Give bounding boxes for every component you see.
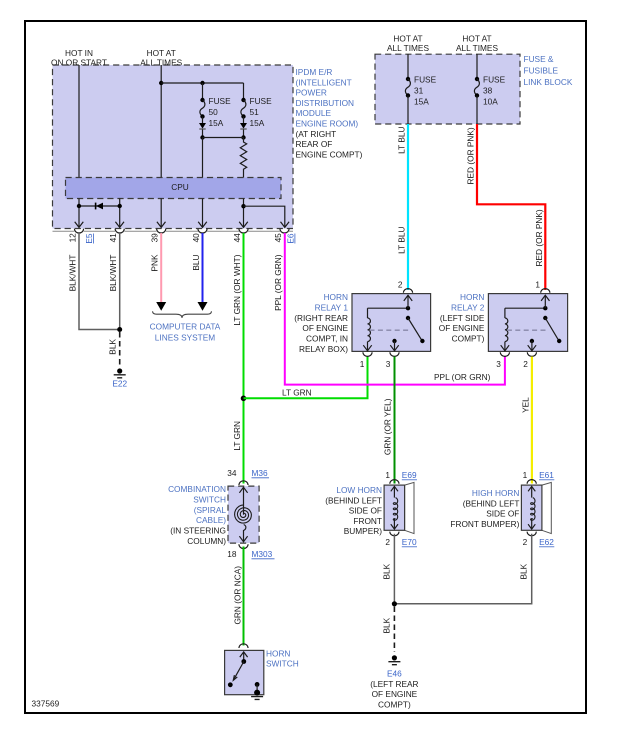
svg-text:COMPT, IN: COMPT, IN: [306, 334, 348, 344]
label LT GRN vertical: [232, 421, 242, 451]
IPDM E/R module U1 (box): [53, 65, 294, 229]
svg-text:41: 41: [108, 233, 118, 243]
label BLK (E22): [108, 339, 118, 355]
svg-text:FUSE &: FUSE &: [524, 54, 554, 64]
high horn label text: [450, 488, 519, 529]
svg-text:COMPUTER DATA: COMPUTER DATA: [150, 322, 221, 332]
wire CPU out pin 40: [198, 199, 207, 228]
svg-text:LT BLU: LT BLU: [397, 227, 407, 254]
svg-text:HIGH HORN: HIGH HORN: [472, 488, 519, 498]
svg-text:E5: E5: [84, 233, 94, 244]
svg-text:45: 45: [273, 233, 283, 243]
brace computer data lines: [153, 311, 212, 318]
label BLK low horn: [382, 563, 392, 579]
svg-text:RED (OR PNK): RED (OR PNK): [534, 209, 544, 266]
connector arcs IPDM pins: [74, 229, 289, 233]
relay 1 pin 2 internal wire: [404, 295, 412, 308]
svg-text:E6: E6: [286, 233, 296, 244]
wire GRN (OR NCA) to horn switch: [243, 547, 245, 646]
svg-text:10A: 10A: [483, 97, 498, 107]
svg-text:LT GRN: LT GRN: [282, 388, 312, 398]
svg-text:PNK: PNK: [150, 254, 160, 272]
svg-text:(AT RIGHT: (AT RIGHT: [296, 129, 337, 139]
high horn bottom connector arc: [527, 532, 536, 536]
svg-text:SWITCH: SWITCH: [266, 659, 299, 669]
svg-text:1: 1: [535, 280, 540, 290]
relay 1 pin 3 internal wire: [390, 339, 398, 351]
svg-text:15A: 15A: [250, 118, 265, 128]
svg-text:OF ENGINE: OF ENGINE: [372, 689, 418, 699]
wire BLK/WHT from pin 41: [119, 233, 121, 330]
connector E61 label: [539, 470, 554, 480]
wire hot-at feed to CPU: [160, 65, 162, 178]
diode D1: [77, 203, 122, 210]
fuse 51 15A: [240, 83, 247, 138]
svg-text:HOT AT: HOT AT: [393, 34, 422, 44]
svg-text:FUSIBLE: FUSIBLE: [524, 66, 559, 76]
label HOT AT ALL TIMES (IPDM): [140, 48, 182, 68]
svg-text:HORN: HORN: [324, 292, 348, 302]
svg-text:BLK/WHT: BLK/WHT: [68, 255, 78, 292]
svg-text:COLUMN): COLUMN): [187, 536, 226, 546]
svg-text:3: 3: [496, 359, 501, 369]
svg-text:LT GRN (OR WHT): LT GRN (OR WHT): [232, 254, 242, 325]
svg-text:BLU: BLU: [191, 254, 201, 270]
low horn top connector arc: [390, 480, 399, 484]
pin 41 label: [108, 233, 118, 243]
svg-text:FUSE: FUSE: [483, 75, 506, 85]
svg-text:2: 2: [398, 280, 403, 290]
horn switch top connector arc: [239, 644, 248, 648]
wire BLK dashed to E48: [393, 607, 395, 653]
wire RED (OR PNK) fuse 38 to relay 2 pin 1: [477, 124, 545, 290]
svg-text:IPDM E/R: IPDM E/R: [296, 67, 333, 77]
low horn LS1: [384, 482, 414, 533]
relay 1 pin 2 label: [398, 280, 403, 290]
svg-text:2: 2: [523, 537, 528, 547]
combination switch spiral cable symbol: [235, 487, 252, 541]
connector M303 label: [252, 549, 275, 559]
node LT GRN junction: [241, 396, 247, 402]
wire BLK/WHT from pin 12: [79, 233, 118, 330]
relay 2 pin 1 internal wire: [541, 295, 549, 308]
svg-text:E61: E61: [539, 470, 554, 480]
svg-text:RELAY BOX): RELAY BOX): [299, 344, 348, 354]
svg-text:(SPIRAL: (SPIRAL: [194, 505, 227, 515]
node ground junction: [117, 327, 122, 332]
svg-text:(INTELLIGENT: (INTELLIGENT: [296, 77, 352, 87]
relay 1 pin 1 label: [360, 359, 365, 369]
svg-text:ENGINE ROOM): ENGINE ROOM): [296, 119, 359, 129]
relay 2 switch: [543, 316, 561, 343]
svg-text:OF ENGINE: OF ENGINE: [302, 323, 348, 333]
svg-text:50: 50: [209, 107, 219, 117]
wire BLK dashed to E22: [119, 332, 121, 366]
svg-text:YEL: YEL: [520, 397, 530, 413]
svg-text:DISTRIBUTION: DISTRIBUTION: [296, 98, 355, 108]
svg-text:ALL TIMES: ALL TIMES: [456, 43, 498, 53]
svg-text:LINES SYSTEM: LINES SYSTEM: [155, 333, 215, 343]
pin 44 label: [232, 233, 242, 243]
wire CPU out pin 39: [157, 199, 166, 228]
horn switch label: [266, 648, 299, 668]
svg-text:BLK: BLK: [108, 339, 118, 355]
label FUSE 31 15A: [414, 75, 437, 107]
ground E22: [112, 368, 127, 388]
svg-text:337569: 337569: [32, 699, 60, 709]
wire BLU from pin 40: [198, 233, 208, 311]
svg-text:RED (OR PNK): RED (OR PNK): [466, 127, 476, 184]
wire LT GRN to relay 1 pin 1: [244, 357, 368, 399]
svg-text:CPU: CPU: [171, 182, 189, 192]
label YEL: [520, 397, 530, 413]
high horn top connector arc: [527, 480, 536, 484]
svg-text:(BEHIND LEFT: (BEHIND LEFT: [463, 498, 520, 508]
svg-text:15A: 15A: [209, 118, 224, 128]
wire pin 44 to pin 45 branch: [244, 206, 290, 227]
relay 1 coil: [368, 308, 371, 341]
svg-text:HORN: HORN: [460, 292, 484, 302]
diagram number: [32, 699, 60, 709]
svg-text:SIDE OF: SIDE OF: [486, 509, 519, 519]
horn relay 2 label text: [439, 292, 485, 344]
fuse block (box): [375, 54, 520, 124]
relay 1 switch: [406, 316, 425, 343]
label LT GRN (OR WHT): [232, 254, 242, 325]
svg-text:LINK BLOCK: LINK BLOCK: [524, 77, 573, 87]
svg-text:E22: E22: [112, 379, 127, 389]
ground E48: [387, 655, 402, 678]
svg-text:LT GRN: LT GRN: [232, 421, 242, 451]
svg-text:OF ENGINE: OF ENGINE: [439, 323, 485, 333]
relay 2 pin 3 label: [496, 359, 501, 369]
pin 39 label: [150, 233, 160, 243]
label BLU: [191, 254, 201, 270]
svg-text:BLK/WHT: BLK/WHT: [108, 255, 118, 292]
svg-text:(LEFT SIDE: (LEFT SIDE: [440, 313, 485, 323]
svg-text:1: 1: [523, 470, 528, 480]
svg-text:HOT AT: HOT AT: [462, 34, 491, 44]
pin 12 label: [68, 233, 78, 243]
label LT BLU upper: [397, 127, 407, 154]
connector M36 label: [252, 468, 270, 478]
svg-text:RELAY 1: RELAY 1: [315, 302, 349, 312]
svg-text:COMBINATION: COMBINATION: [168, 484, 226, 494]
svg-text:(IN STEERING: (IN STEERING: [170, 526, 226, 536]
resistor R1 (IPDM internal): [240, 138, 246, 178]
label COMPUTER DATA LINES SYSTEM: [150, 322, 221, 343]
label GRN (OR YEL): [383, 398, 393, 455]
horn relay 1 label text: [294, 292, 348, 354]
wire GRN (OR YEL) relay1 pin3 to low horn: [394, 357, 396, 484]
svg-text:BLK: BLK: [382, 563, 392, 579]
svg-text:FRONT BUMPER): FRONT BUMPER): [450, 519, 519, 529]
svg-text:SWITCH: SWITCH: [193, 494, 226, 504]
svg-text:34: 34: [227, 468, 237, 478]
label FUSE 50 15A: [209, 96, 232, 128]
svg-text:PPL (OR GRN): PPL (OR GRN): [434, 372, 491, 382]
svg-text:PPL (OR GRN): PPL (OR GRN): [273, 254, 283, 311]
node fuse51 output: [241, 135, 245, 139]
svg-text:ENGINE COMPT): ENGINE COMPT): [296, 149, 363, 159]
label PNK: [150, 254, 160, 272]
svg-text:51: 51: [250, 107, 260, 117]
combination switch pin 34 label: [227, 468, 237, 478]
relay 2 pin 1 label: [535, 280, 540, 290]
node fuse feed junction: [159, 81, 163, 85]
relay 1 pin 2 connector arc: [403, 289, 412, 293]
horn relay 2 K2 (box): [488, 294, 567, 352]
svg-text:LT BLU: LT BLU: [397, 127, 407, 154]
connector E69 label: [402, 470, 417, 480]
svg-text:18: 18: [227, 549, 237, 559]
relay 1 pin 1 connector arc: [363, 352, 372, 356]
high horn pin 2 label: [523, 537, 528, 547]
wire LT GRN (OR WHT) from pin 44: [243, 233, 245, 484]
CPU U2: [66, 178, 282, 199]
relay 1 pin 3 label: [386, 359, 391, 369]
svg-text:REAR OF: REAR OF: [296, 139, 333, 149]
connector E62 label: [539, 537, 554, 547]
svg-text:FRONT: FRONT: [353, 516, 382, 526]
node BLK junction: [392, 601, 397, 606]
wire BLK high horn pin 2: [397, 534, 532, 604]
label FUSE 51 15A: [250, 96, 273, 128]
label PPL (OR GRN) vertical: [273, 254, 283, 311]
relay 2 pin 2 internal wire: [528, 339, 536, 351]
horn switch S2 (box): [225, 650, 264, 694]
relay 2 pin 3 connector arc: [500, 352, 509, 356]
svg-text:1: 1: [360, 359, 365, 369]
wire CPU out pin 41: [115, 199, 124, 228]
label E48 location: [370, 679, 418, 710]
svg-text:HORN: HORN: [266, 648, 290, 658]
connector E5 label: [84, 233, 94, 244]
combination switch top connector arc: [239, 481, 248, 485]
svg-text:FUSE: FUSE: [414, 75, 437, 85]
svg-text:E70: E70: [402, 537, 417, 547]
wire fuse feed branch: [161, 81, 243, 85]
svg-text:E46: E46: [387, 669, 402, 679]
combination switch bottom connector arc: [239, 544, 248, 548]
label HOT IN ON OR START: [51, 48, 107, 68]
combination switch S1 (box): [228, 486, 259, 543]
svg-text:HOT IN: HOT IN: [65, 48, 93, 58]
relay 2 coil-to-common wire: [505, 306, 548, 310]
low horn label text: [325, 485, 382, 536]
svg-text:12: 12: [68, 233, 78, 243]
svg-text:2: 2: [523, 359, 528, 369]
svg-text:COMPT): COMPT): [378, 699, 411, 709]
svg-text:(LEFT REAR: (LEFT REAR: [370, 679, 418, 689]
high horn LS2: [521, 482, 551, 533]
relay 1 coil-to-common wire: [368, 306, 411, 310]
fuse 38 10A: [474, 54, 479, 124]
svg-text:M36: M36: [252, 468, 269, 478]
svg-text:E69: E69: [402, 470, 417, 480]
svg-text:15A: 15A: [414, 97, 429, 107]
label RED (OR PNK) lower: [534, 209, 544, 266]
svg-text:FUSE: FUSE: [250, 96, 273, 106]
wire BLK low horn pin 2: [393, 534, 395, 604]
label LT GRN horizontal: [282, 388, 312, 398]
svg-text:2: 2: [385, 537, 390, 547]
relay 1 pin 3 connector arc: [390, 352, 399, 356]
label HOT AT ALL TIMES (fuse 38): [456, 34, 498, 54]
svg-text:BUMPER): BUMPER): [344, 526, 382, 536]
svg-text:GRN (OR YEL): GRN (OR YEL): [383, 398, 393, 455]
label RED (OR PNK) upper: [466, 127, 476, 184]
combination switch label text: [168, 484, 226, 546]
svg-text:40: 40: [191, 233, 201, 243]
label GRN (OR NCA): [233, 566, 243, 625]
svg-text:RELAY 2: RELAY 2: [451, 302, 485, 312]
svg-text:38: 38: [483, 86, 493, 96]
svg-text:3: 3: [386, 359, 391, 369]
svg-text:1: 1: [385, 470, 390, 480]
wire CPU out pin 44: [239, 199, 248, 228]
high horn pin 1 label: [523, 470, 528, 480]
pin 45 label: [273, 233, 283, 243]
svg-text:M303: M303: [252, 549, 273, 559]
svg-text:MODULE: MODULE: [296, 108, 332, 118]
svg-text:(RIGHT REAR: (RIGHT REAR: [294, 313, 348, 323]
low horn pin 2 label: [385, 537, 390, 547]
relay 2 pin 2 connector arc: [527, 352, 536, 356]
connector E70 label: [402, 537, 417, 547]
svg-text:BLK: BLK: [519, 563, 529, 579]
horn switch internal ground: [251, 690, 263, 700]
label BLK/WHT pin41: [108, 255, 118, 292]
label BLK (E48): [382, 617, 392, 633]
wire PPL (OR GRN) from pin 45 to relay 2 pin 3: [285, 233, 505, 385]
wire PNK from pin 39: [156, 233, 166, 311]
connector E6 label: [286, 233, 296, 244]
svg-text:44: 44: [232, 233, 242, 243]
svg-text:31: 31: [414, 86, 424, 96]
IPDM label text: [296, 67, 363, 159]
relay 1 pin 1 internal wire: [363, 342, 371, 351]
connector strip line E5/E6: [53, 230, 294, 232]
low horn bottom connector arc: [390, 532, 399, 536]
svg-text:GRN (OR NCA): GRN (OR NCA): [233, 566, 243, 625]
wire CPU out pin 12: [75, 199, 84, 228]
label HOT AT ALL TIMES (fuse 31): [387, 34, 429, 54]
svg-text:LOW HORN: LOW HORN: [336, 485, 382, 495]
wire hot-in feed to CPU: [78, 65, 80, 178]
label FUSE & FUSIBLE LINK BLOCK: [524, 54, 573, 87]
svg-text:COMPT): COMPT): [452, 334, 485, 344]
relay 2 coil: [505, 308, 508, 341]
relay 2 actuator dashed link: [507, 329, 547, 331]
horn relay 1 K1 (box): [352, 294, 431, 352]
wire fuse outputs link: [203, 137, 244, 139]
svg-text:BLK: BLK: [382, 617, 392, 633]
wire LT BLU fuse 31 to relay 1 pin 2: [407, 124, 409, 290]
relay 2 pin 1 connector arc: [541, 289, 550, 293]
svg-text:SIDE OF: SIDE OF: [349, 506, 382, 516]
svg-text:E62: E62: [539, 537, 554, 547]
svg-text:39: 39: [150, 233, 160, 243]
node pin 44 branch: [241, 204, 245, 208]
label BLK/WHT pin12: [68, 255, 78, 292]
svg-text:(BEHIND LEFT: (BEHIND LEFT: [325, 495, 382, 505]
label PPL (OR GRN) horizontal: [434, 372, 491, 382]
label LT BLU lower: [397, 227, 407, 254]
fuse 50 15A: [199, 83, 206, 138]
wire YEL relay2 pin2 to high horn: [531, 357, 533, 484]
relay 2 pin 3 internal wire: [501, 342, 509, 351]
svg-text:HOT AT: HOT AT: [147, 48, 176, 58]
svg-text:POWER: POWER: [296, 88, 327, 98]
relay 2 pin 2 label: [523, 359, 528, 369]
horn switch contacts: [228, 652, 260, 691]
svg-text:ALL TIMES: ALL TIMES: [387, 43, 429, 53]
wire fuse50 to CPU: [202, 138, 204, 178]
relay 1 actuator dashed link: [370, 329, 411, 331]
label BLK high horn: [519, 563, 529, 579]
label FUSE 38 10A: [483, 75, 506, 107]
node fuse50 output: [200, 135, 204, 139]
svg-text:CABLE): CABLE): [196, 515, 226, 525]
pin 40 label: [191, 233, 201, 243]
combination switch pin 18 label: [227, 549, 237, 559]
fuse 31 15A: [405, 54, 410, 124]
low horn pin 1 label: [385, 470, 390, 480]
svg-text:FUSE: FUSE: [209, 96, 232, 106]
